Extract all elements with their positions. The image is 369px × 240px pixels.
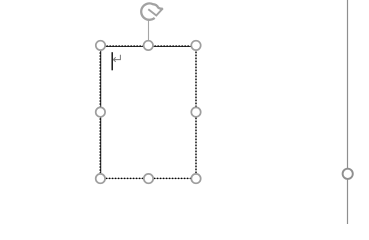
selection border underlay [100, 46, 196, 178]
node handle mid-left [96, 107, 105, 116]
node handle top-center [144, 41, 153, 50]
node handle top-left [96, 41, 105, 50]
selection border left [100, 46, 102, 178]
node line endpoint handle [343, 169, 353, 179]
node handle bottom-center [144, 174, 153, 183]
rotation handle stem [148, 20, 150, 40]
node handle bottom-left [96, 174, 105, 183]
paragraph return mark [113, 55, 120, 62]
wire vertical line right [347, 0, 349, 224]
selection border bottom [100, 177, 196, 179]
node handle bottom-right [191, 174, 200, 183]
rotation handle arrowhead [148, 8, 163, 15]
selection border top [100, 46, 196, 48]
node handle mid-right [191, 107, 200, 116]
selection border right [195, 46, 197, 178]
node handle top-right [191, 41, 200, 50]
text caret [112, 52, 113, 70]
rotation handle ring [141, 3, 163, 19]
